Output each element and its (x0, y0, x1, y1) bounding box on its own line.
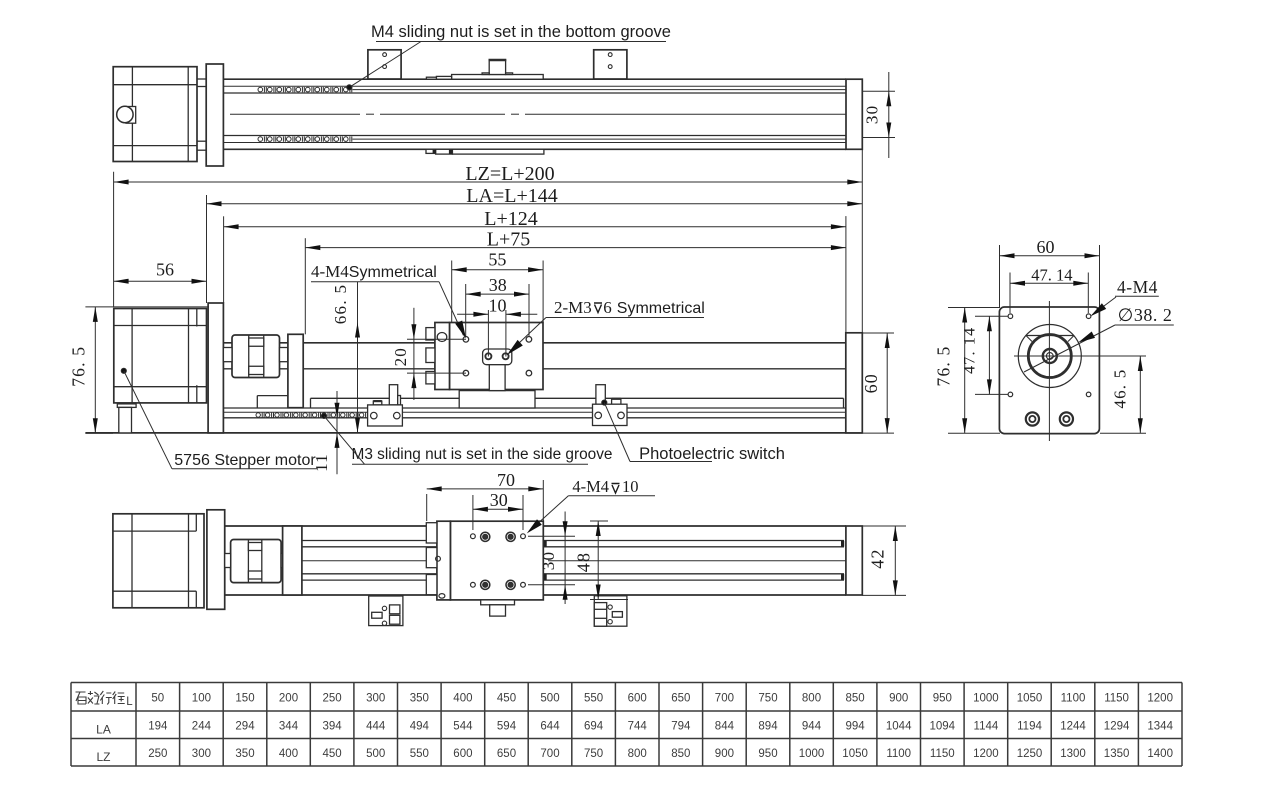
top view: leader to bottom groove nut (349, 42, 421, 88)
svg-text:10: 10 (622, 477, 639, 496)
leader photoelectric switch (604, 403, 630, 462)
svg-text:794: 794 (671, 721, 691, 733)
svg-text:400: 400 (279, 748, 298, 760)
bottom view carriage end piece (437, 521, 451, 600)
end view M4 hole TR (1086, 314, 1091, 319)
svg-text:450: 450 (323, 748, 342, 760)
svg-text:594: 594 (497, 721, 517, 733)
svg-text:LA: LA (96, 723, 111, 737)
dim 46.5 end view (1100, 432, 1146, 434)
svg-text:∅38. 2: ∅38. 2 (1118, 305, 1173, 325)
svg-text:294: 294 (235, 721, 255, 733)
top view carriage left step (436, 76, 451, 79)
svg-text:1050: 1050 (842, 748, 868, 760)
bottom view centerline (214, 560, 455, 562)
svg-text:444: 444 (366, 721, 386, 733)
svg-text:1000: 1000 (973, 693, 999, 705)
front view coupling (232, 335, 280, 378)
front view motor shaft stub (223, 348, 232, 362)
dim 30 bottom right (528, 535, 575, 537)
bottom view bearing housing (283, 526, 302, 595)
front view M4 hole bottom-right (526, 370, 532, 376)
table of strokes (71, 682, 1182, 684)
dim 47.14 end view top (1009, 273, 1011, 314)
svg-text:20: 20 (391, 347, 410, 366)
top view bottom carriage plate (452, 149, 544, 154)
end view M4 hole BL (1008, 392, 1013, 397)
top view rail body (223, 78, 846, 80)
svg-text:894: 894 (758, 721, 778, 733)
svg-text:350: 350 (410, 693, 429, 705)
svg-text:1244: 1244 (1060, 721, 1086, 733)
dim 70 (426, 494, 428, 521)
svg-text:55: 55 (488, 250, 506, 270)
svg-text:944: 944 (802, 721, 822, 733)
svg-text:56: 56 (156, 260, 174, 280)
svg-text:544: 544 (453, 721, 473, 733)
leader 5756 (124, 371, 172, 469)
svg-text:650: 650 (671, 693, 690, 705)
svg-text:1294: 1294 (1104, 721, 1130, 733)
svg-text:1300: 1300 (1060, 748, 1086, 760)
end view boss chord (1026, 335, 1074, 337)
svg-text:700: 700 (540, 748, 559, 760)
svg-text:300: 300 (192, 748, 211, 760)
svg-text:30: 30 (539, 551, 558, 570)
front view M4 hole bottom-left (463, 370, 469, 376)
end view plate (999, 307, 1099, 434)
svg-text:994: 994 (846, 721, 866, 733)
end view M4 hole TL (1008, 314, 1013, 319)
svg-text:300: 300 (366, 693, 385, 705)
svg-text:244: 244 (192, 721, 212, 733)
front view photoelectric switch 1 (389, 385, 397, 405)
svg-text:48: 48 (574, 552, 594, 572)
svg-text:250: 250 (323, 693, 342, 705)
svg-text:1050: 1050 (1017, 693, 1043, 705)
dim 66.5 (357, 282, 359, 433)
dim LA=L+144 (207, 203, 863, 205)
end view horizontal centerline (1014, 355, 1146, 357)
svg-text:LA=L+144: LA=L+144 (466, 185, 557, 207)
extension lines for length dims (113, 172, 115, 307)
top view motor front step lines (197, 78, 206, 80)
svg-text:70: 70 (497, 470, 515, 490)
dim 38 (465, 284, 467, 336)
front view M3 hole right (503, 353, 509, 359)
svg-text:1194: 1194 (1017, 721, 1042, 733)
front view M3 hole left (485, 353, 491, 359)
svg-text:950: 950 (933, 693, 952, 705)
svg-text:50: 50 (151, 693, 164, 705)
front view flange block (208, 303, 223, 433)
leader dot M3 nut (321, 413, 326, 418)
svg-text:100: 100 (192, 693, 211, 705)
top view dim 30 (888, 72, 890, 158)
bottom view shaft stub right (281, 554, 283, 568)
top view motor flange block (206, 64, 223, 166)
svg-text:550: 550 (410, 748, 429, 760)
front view carriage tab 1 (426, 328, 435, 340)
bottom view body outline (225, 525, 846, 527)
svg-text:4-M4: 4-M4 (1117, 277, 1158, 297)
svg-text:1350: 1350 (1104, 748, 1130, 760)
svg-text:744: 744 (628, 721, 648, 733)
svg-text:10: 10 (489, 295, 507, 315)
svg-text:M3 sliding nut is set in the s: M3 sliding nut is set in the side groove (352, 446, 613, 463)
svg-text:66. 5: 66. 5 (331, 284, 350, 325)
bottom view shaft stub left (225, 554, 231, 568)
svg-text:4-M4: 4-M4 (572, 477, 609, 496)
top view ball chain upper band (258, 87, 263, 92)
svg-text:800: 800 (628, 748, 647, 760)
svg-text:42: 42 (868, 548, 888, 568)
leader 4-M4 depth10 (530, 496, 569, 531)
top view ball chain lower band (258, 137, 263, 142)
svg-text:60: 60 (861, 373, 881, 393)
front view small hole in end piece (437, 333, 447, 342)
bottom view small hole (436, 556, 441, 561)
front view carriage block (450, 323, 544, 390)
bottom view stepper motor (113, 514, 204, 608)
dim LZ=L+200 (114, 181, 863, 183)
svg-text:194: 194 (148, 721, 168, 733)
svg-text:550: 550 (584, 693, 603, 705)
end view circle d38.2 (1018, 325, 1081, 388)
leader M3 nut (324, 416, 365, 464)
end view M4 hole BR (1086, 392, 1091, 397)
front view motor foot leg (119, 407, 132, 433)
svg-text:500: 500 (540, 693, 559, 705)
svg-text:1400: 1400 (1147, 748, 1173, 760)
top view dim 30 ticks (862, 90, 895, 92)
dim 55 (451, 261, 453, 323)
svg-text:344: 344 (279, 721, 299, 733)
svg-text:LZ: LZ (96, 750, 110, 764)
front view photoelectric switch 2 (596, 385, 605, 405)
bottom view sensor bracket right (594, 596, 627, 626)
front view stepper motor (114, 309, 207, 403)
svg-text:46. 5: 46. 5 (1110, 369, 1129, 409)
svg-text:1000: 1000 (799, 748, 825, 760)
end view bottom screw right (1060, 412, 1073, 425)
top view rail centerline (230, 113, 360, 115)
svg-text:950: 950 (758, 748, 777, 760)
front view M4 hole top-right (526, 337, 532, 343)
svg-text:2-M36Symmetrical: 2-M36Symmetrical (554, 298, 705, 317)
svg-text:750: 750 (584, 748, 603, 760)
svg-text:1044: 1044 (886, 721, 912, 733)
front view end plate (846, 333, 863, 433)
bottom view carriage tab 1 (426, 523, 437, 543)
top view carriage plate (452, 75, 544, 80)
svg-text:900: 900 (889, 693, 908, 705)
svg-text:11: 11 (312, 453, 331, 472)
svg-text:60: 60 (1037, 237, 1055, 257)
svg-text:47. 14: 47. 14 (1031, 265, 1072, 284)
front view motor foot (117, 404, 136, 408)
svg-text:694: 694 (584, 721, 604, 733)
bottom view coupling (231, 540, 282, 583)
front view leader dot on motor (121, 368, 126, 373)
bottom view carriage tab 3 (426, 575, 437, 595)
svg-text:350: 350 (235, 748, 254, 760)
svg-text:400: 400 (453, 693, 472, 705)
svg-text:1150: 1150 (930, 748, 955, 760)
end view shaft center circle (1046, 353, 1053, 360)
svg-text:LZ=L+200: LZ=L+200 (465, 163, 554, 185)
svg-text:1250: 1250 (1017, 748, 1043, 760)
top view motor connector (126, 107, 136, 124)
front view carriage tab 3 (426, 372, 435, 384)
front view body top line (223, 342, 845, 344)
dim 10 (487, 310, 489, 357)
svg-text:1094: 1094 (930, 721, 956, 733)
bottom view flange block (207, 510, 225, 610)
svg-text:1150: 1150 (1104, 693, 1129, 705)
front view carriage tab 2 (426, 348, 435, 363)
svg-text:850: 850 (671, 748, 690, 760)
svg-text:L+124: L+124 (484, 208, 538, 230)
top view sensor bracket left (368, 50, 401, 79)
bottom view sensor bracket left (369, 596, 403, 626)
end view bearing boss circle (1028, 335, 1071, 378)
bottom view carriage tab 2 (426, 548, 437, 568)
svg-text:644: 644 (540, 721, 560, 733)
dim 47.14 end view left (975, 315, 1008, 317)
front view screw shaft stub (280, 348, 288, 362)
svg-text:76. 5: 76. 5 (934, 346, 954, 387)
top view stepper motor body (113, 67, 197, 162)
front view bearing housing (288, 334, 303, 407)
top view: label underline (376, 41, 666, 43)
svg-text:1200: 1200 (1147, 693, 1173, 705)
svg-text:30: 30 (863, 105, 882, 124)
svg-text:1200: 1200 (973, 748, 999, 760)
svg-text:5756 Stepper motor: 5756 Stepper motor (174, 452, 316, 469)
bottom view carriage block (450, 521, 543, 600)
leader dot on switch 2 (602, 400, 607, 405)
front view side rail (311, 397, 844, 399)
front view center nut plate (483, 349, 512, 365)
leader 2-M3 (509, 318, 546, 353)
bottom view end cap (846, 526, 862, 595)
table header cell (76, 692, 87, 704)
svg-text:394: 394 (323, 721, 343, 733)
dim L+124 (224, 226, 846, 228)
svg-text:47. 14: 47. 14 (962, 327, 979, 374)
svg-text:750: 750 (758, 693, 777, 705)
svg-text:650: 650 (497, 748, 516, 760)
dim 60 front view (862, 332, 894, 334)
front view M4 hole top-left (463, 337, 469, 343)
svg-text:L+75: L+75 (487, 229, 531, 251)
top view sensor bracket right (594, 50, 627, 79)
svg-text:76. 5: 76. 5 (69, 346, 89, 387)
svg-text:1344: 1344 (1147, 721, 1173, 733)
svg-text:M4 sliding nut is set in the b: M4 sliding nut is set in the bottom groo… (371, 23, 671, 41)
dim 48 (590, 520, 608, 522)
dim 76.5 front view (85, 306, 209, 308)
svg-text:200: 200 (279, 693, 298, 705)
svg-text:450: 450 (497, 693, 516, 705)
bottom view carriage holes top row (471, 534, 476, 539)
svg-text:Photoelectric switch: Photoelectric switch (639, 445, 785, 463)
front view body mid line (223, 368, 845, 370)
svg-text:850: 850 (846, 693, 865, 705)
dim 56 (114, 280, 207, 282)
svg-text:4-M4Symmetrical: 4-M4Symmetrical (311, 262, 437, 281)
svg-text:494: 494 (410, 721, 430, 733)
top view carriage center tab (489, 60, 505, 75)
leader d38.2 (1024, 325, 1115, 372)
svg-text:L: L (126, 696, 133, 708)
front view chain in side groove (256, 413, 260, 417)
top view: leader dot (347, 85, 352, 90)
svg-text:250: 250 (148, 748, 167, 760)
svg-text:800: 800 (802, 693, 821, 705)
svg-text:500: 500 (366, 748, 385, 760)
dim L+75 (305, 247, 846, 249)
bottom view guide strips (302, 540, 437, 542)
svg-text:900: 900 (715, 748, 734, 760)
dim 20 (413, 308, 415, 400)
dim 30 bottom top (472, 495, 474, 530)
end view vertical centerline (1048, 301, 1050, 441)
svg-text:600: 600 (453, 748, 472, 760)
end view shaft circle (1043, 349, 1057, 363)
svg-text:700: 700 (715, 693, 734, 705)
dim 11 (336, 391, 338, 474)
bottom view carriage center tab (481, 600, 515, 605)
svg-text:600: 600 (628, 693, 647, 705)
dim 76.5 end view (948, 307, 1000, 309)
svg-text:1100: 1100 (1061, 693, 1086, 705)
svg-text:1100: 1100 (886, 748, 911, 760)
top view end cap (846, 79, 862, 149)
svg-text:30: 30 (490, 490, 508, 510)
svg-text:150: 150 (235, 693, 254, 705)
end view bottom screw left (1026, 412, 1039, 425)
front view carriage lower tab (489, 365, 505, 391)
dim 60 end view (999, 245, 1001, 307)
svg-text:1144: 1144 (974, 721, 999, 733)
svg-text:38: 38 (489, 275, 507, 295)
front view carriage left end piece (435, 323, 450, 390)
front view base line (85, 432, 862, 434)
bottom view carriage holes bottom row (471, 582, 476, 587)
svg-text:844: 844 (715, 721, 735, 733)
front view carriage pedestal (459, 391, 535, 408)
leader 4-M4 (439, 282, 464, 336)
dim 42 (862, 525, 906, 527)
